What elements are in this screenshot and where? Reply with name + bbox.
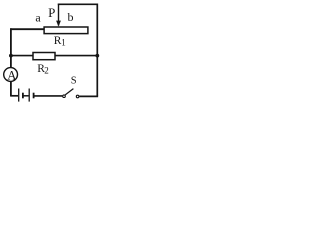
battery cell1 short plate <box>22 93 24 99</box>
svg-text:1: 1 <box>61 37 65 47</box>
svg-text:P: P <box>48 5 55 20</box>
node R junction dot <box>95 54 99 58</box>
wire bottom-left: corner to battery <box>10 95 18 97</box>
svg-text:b: b <box>68 10 74 24</box>
svg-text:2: 2 <box>44 65 49 75</box>
battery cell2 short plate <box>33 93 35 99</box>
wire bottom-right: switch to right column <box>79 95 98 97</box>
ammeter A circle <box>4 68 18 82</box>
wire between battery cells <box>24 95 29 97</box>
rheostat R1 body <box>44 27 88 34</box>
battery cell2 long plate <box>28 89 30 102</box>
switch S right contact <box>76 95 79 98</box>
wire top-left: node L to R1 terminal a <box>10 28 45 30</box>
wire left vertical upper: corner to ammeter top <box>10 28 12 68</box>
resistor R2 body <box>33 53 55 60</box>
battery cell1 long plate <box>18 89 20 102</box>
wire bottom: battery to switch <box>34 95 62 97</box>
slider P arrow <box>58 4 60 26</box>
svg-text:A: A <box>7 68 16 82</box>
wire right vertical <box>96 4 98 97</box>
switch S blade <box>65 89 73 95</box>
wire top: slider P to right column <box>58 3 98 5</box>
node L junction dot <box>9 54 13 58</box>
switch S left contact <box>63 95 66 98</box>
svg-text:a: a <box>35 10 41 24</box>
wire left vertical lower: ammeter bottom to corner <box>10 81 12 96</box>
svg-text:S: S <box>71 76 77 87</box>
wire middle: node L through R2 to node R <box>11 55 97 57</box>
